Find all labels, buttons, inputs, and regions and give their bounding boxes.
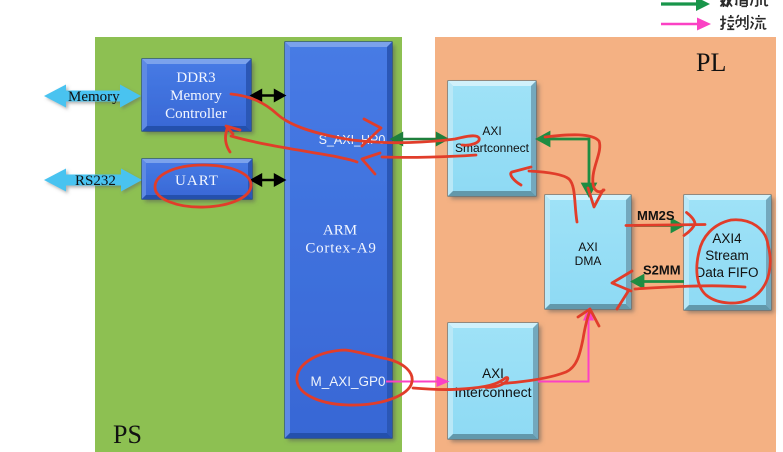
svg-text:MM2S: MM2S xyxy=(637,208,675,223)
S2MM red overline with arrowhead xyxy=(635,286,745,289)
green elbow arrow Smartconnect-DMA xyxy=(538,133,595,195)
svg-text:AXI: AXI xyxy=(578,240,597,254)
legend control-flow arrow xyxy=(661,18,711,31)
AXI Interconnect box xyxy=(448,323,538,439)
tail from loop to interconnect and up to DMA xyxy=(413,378,508,390)
svg-text:Controller: Controller xyxy=(165,106,227,122)
rs232 double arrow xyxy=(44,169,142,192)
stroke along green elbow to DMA top xyxy=(545,135,604,192)
black double arrow UART-ARM xyxy=(252,175,284,185)
MM2S red overline with arrowhead xyxy=(626,225,705,226)
svg-text:Memory: Memory xyxy=(68,89,120,105)
svg-text:PL: PL xyxy=(696,48,726,77)
circle around AXI4 FIFO text xyxy=(697,220,770,303)
svg-text:RS232: RS232 xyxy=(75,173,116,189)
UART box xyxy=(142,159,252,199)
green S2MM arrow xyxy=(633,276,684,287)
AXI4 Stream Data FIFO box xyxy=(684,195,771,310)
svg-text:Memory: Memory xyxy=(170,88,222,104)
chevron at S_AXI_HP0 xyxy=(362,119,381,146)
red annotations xyxy=(155,94,770,405)
svg-text:AXI: AXI xyxy=(482,366,504,381)
green double arrow ARM-Smartconnect xyxy=(392,134,447,145)
legend data-flow text (数据流 drawn strokes, top-clipped) xyxy=(721,0,769,7)
svg-text:DDR3: DDR3 xyxy=(176,70,215,86)
legend control-flow text (控制流 drawn strokes) xyxy=(720,15,766,30)
svg-text:Data FIFO: Data FIFO xyxy=(695,265,758,280)
ARM Cortex-A9 box xyxy=(285,42,392,438)
svg-text:PS: PS xyxy=(113,420,142,449)
svg-text:ARM: ARM xyxy=(323,223,357,239)
svg-text:AXI4: AXI4 xyxy=(712,231,742,246)
AXI DMA box xyxy=(545,195,631,309)
ellipse around UART xyxy=(155,165,251,207)
AXI Smartconnect box xyxy=(448,81,536,196)
svg-text:Stream: Stream xyxy=(705,248,749,263)
svg-text:Smartconnect: Smartconnect xyxy=(455,141,530,155)
svg-text:UART: UART xyxy=(175,173,219,189)
black double arrow DDR3-ARM xyxy=(252,91,284,101)
PS region background xyxy=(95,37,402,452)
svg-text:M_AXI_GP0: M_AXI_GP0 xyxy=(310,374,385,389)
pink arrow M_AXI_GP0 to Interconnect xyxy=(386,378,447,386)
left arrow from Smartconnect xyxy=(382,155,476,157)
DDR3 memory controller box xyxy=(142,59,251,131)
memory double arrow xyxy=(44,85,141,108)
pink elbow Interconnect-DMA xyxy=(538,310,593,382)
PL region background xyxy=(435,37,776,452)
svg-text:AXI: AXI xyxy=(482,124,501,138)
legend data-flow arrow xyxy=(661,0,710,11)
svg-text:Cortex-A9: Cortex-A9 xyxy=(305,241,376,257)
svg-text:DMA: DMA xyxy=(575,254,602,268)
svg-text:S2MM: S2MM xyxy=(643,263,681,278)
arrow to DDR3 corner with tail xyxy=(226,126,240,134)
arrow back to Smartconnect bottom with tail into DMA xyxy=(511,167,531,185)
loop around M_AXI_GP0 xyxy=(297,350,412,405)
stroke A: DDR3 to Smartconnect xyxy=(231,94,479,145)
green MM2S arrow xyxy=(634,220,682,231)
